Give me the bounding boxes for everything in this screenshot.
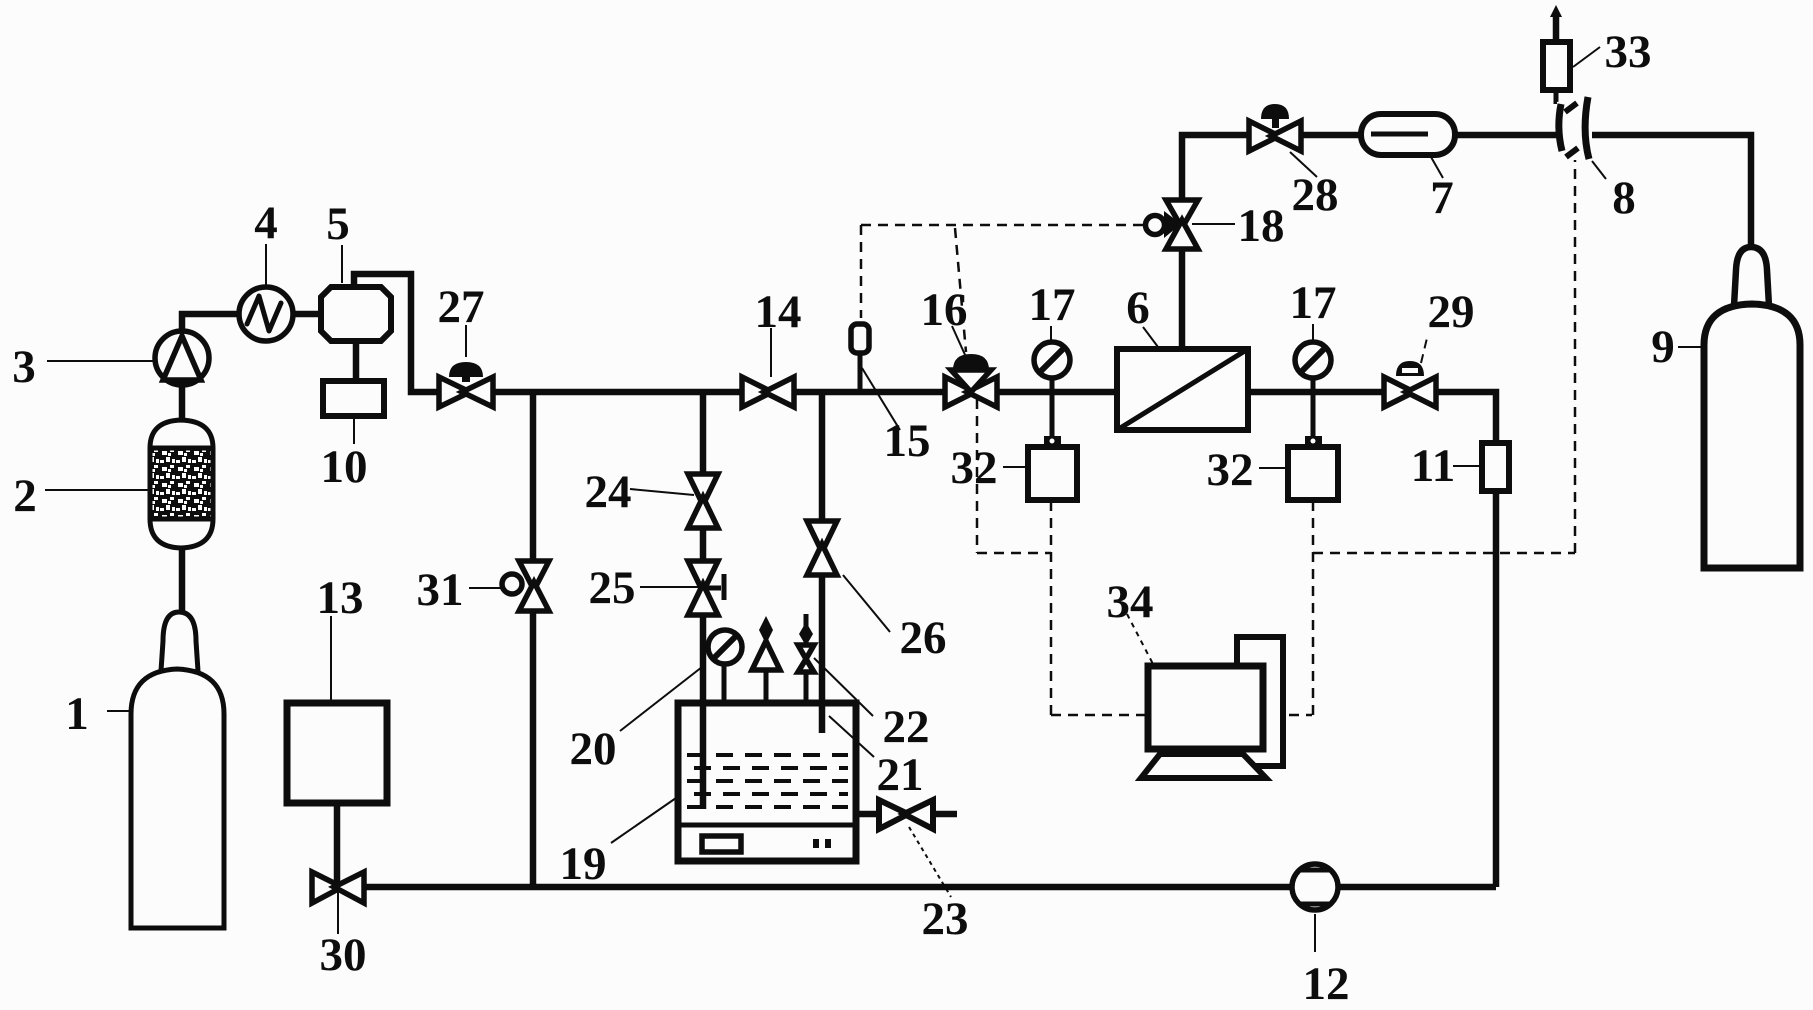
svg-text:17: 17 — [1290, 277, 1337, 329]
svg-text:2: 2 — [13, 470, 37, 522]
svg-text:19: 19 — [560, 838, 607, 890]
svg-text:14: 14 — [755, 286, 802, 338]
svg-text:22: 22 — [883, 701, 930, 753]
svg-text:24: 24 — [585, 466, 632, 518]
svg-text:23: 23 — [922, 893, 969, 945]
svg-text:17: 17 — [1029, 279, 1076, 331]
svg-text:34: 34 — [1107, 576, 1154, 628]
svg-text:10: 10 — [321, 441, 368, 493]
svg-text:9: 9 — [1651, 321, 1675, 373]
svg-text:20: 20 — [570, 723, 617, 775]
svg-text:33: 33 — [1605, 26, 1652, 78]
svg-text:1: 1 — [65, 688, 89, 740]
svg-text:25: 25 — [589, 562, 636, 614]
svg-text:29: 29 — [1428, 286, 1475, 338]
svg-text:4: 4 — [254, 197, 278, 249]
svg-text:6: 6 — [1126, 282, 1150, 334]
svg-text:18: 18 — [1238, 200, 1285, 252]
svg-text:30: 30 — [320, 929, 367, 981]
svg-text:31: 31 — [417, 564, 464, 616]
svg-text:26: 26 — [900, 612, 947, 664]
svg-text:13: 13 — [317, 572, 364, 624]
svg-text:8: 8 — [1612, 172, 1636, 224]
svg-text:16: 16 — [921, 284, 968, 336]
svg-text:12: 12 — [1303, 958, 1350, 1010]
svg-text:7: 7 — [1430, 172, 1454, 224]
svg-text:11: 11 — [1411, 440, 1455, 492]
svg-text:21: 21 — [877, 749, 924, 801]
svg-text:27: 27 — [438, 281, 485, 333]
svg-text:32: 32 — [951, 442, 998, 494]
svg-text:15: 15 — [884, 415, 931, 467]
svg-text:5: 5 — [326, 198, 350, 250]
svg-text:32: 32 — [1207, 444, 1254, 496]
svg-text:28: 28 — [1292, 169, 1339, 221]
svg-text:3: 3 — [12, 341, 36, 393]
